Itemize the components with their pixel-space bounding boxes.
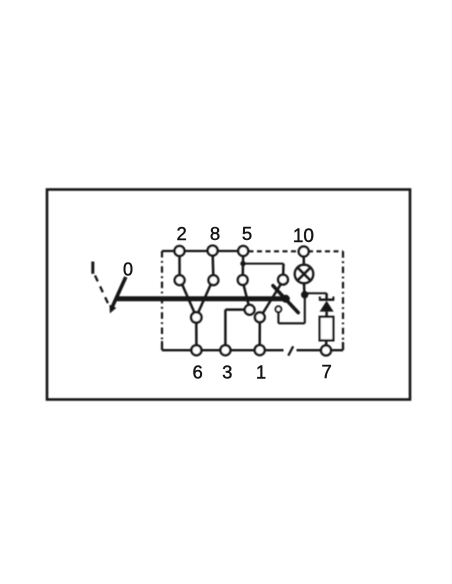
svg-text:10: 10 bbox=[293, 226, 314, 247]
svg-text:5: 5 bbox=[242, 223, 252, 244]
svg-text:6: 6 bbox=[193, 362, 203, 383]
svg-text:2: 2 bbox=[177, 223, 187, 244]
svg-text:1: 1 bbox=[256, 362, 266, 383]
svg-text:0: 0 bbox=[123, 259, 133, 279]
svg-text:7: 7 bbox=[321, 361, 331, 382]
svg-text:8: 8 bbox=[210, 223, 220, 244]
svg-text:3: 3 bbox=[222, 362, 232, 383]
